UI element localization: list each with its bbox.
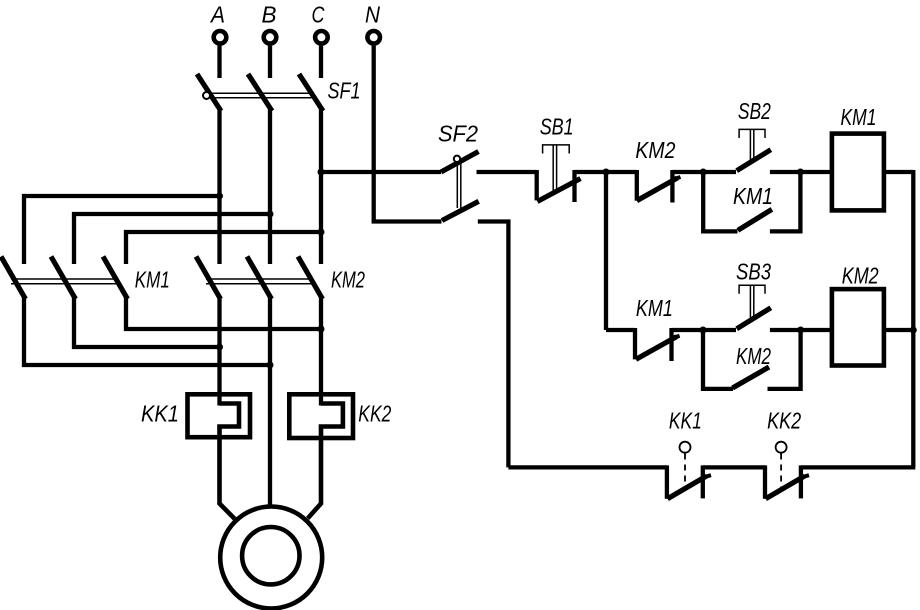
node SB2 left junction [700,169,707,176]
wire B to KM1 pole2 feed [74,214,270,264]
contact KM2 NC blade [637,178,678,201]
pushbutton SB1 right lead [572,170,576,202]
right rail [911,170,915,467]
pushbutton SB2 blade [737,150,771,171]
wire phase A SF1 to KM2 block [217,109,221,264]
contact KM1 NC tick [672,336,680,339]
SF2 pivot circle [454,156,460,162]
wire KM1 pole2 output crossover to A [74,296,220,347]
svg-text:KM2: KM2 [736,343,771,369]
svg-text:KK1: KK1 [669,408,702,434]
contact KM1 aux branch [703,172,737,231]
svg-text:SB1: SB1 [540,114,574,140]
contact KM2 NC left lead [635,170,639,201]
contact KK2 right lead [799,465,803,498]
contactor KM2 pole3 blade [298,257,323,300]
overload relay KK2 heater box [289,394,353,438]
node right rail junction [910,327,917,334]
switch SF2 pole1 blade [441,152,479,173]
wire SB3 to KM2 coil [770,328,832,332]
node C feed tap [318,229,325,236]
wire A to KM1 pole1 feed [24,196,220,264]
bottom rail middle [703,465,765,469]
SB2 actuator [739,129,765,138]
node crossover A junction [216,344,223,351]
node rung1 branch [603,169,610,176]
coil KM1 box [832,134,884,211]
contact KK1 tick [702,475,712,478]
wire N terminal down [374,46,442,222]
contact KM2 aux blade [733,367,770,388]
SF1 coupling bar [207,92,312,94]
KK2 circle [776,442,787,453]
KM1 coupling bar [11,278,117,280]
contact KM2 NC right lead [670,170,674,203]
SB1 actuator [543,145,570,154]
switch SF1 pole C blade [299,74,323,111]
contact KM2 aux right lead [768,330,801,389]
svg-text:SF1: SF1 [328,77,361,103]
KK2 dashed link [780,454,782,490]
bottom rail left [508,465,667,469]
coil KM2 box [832,289,884,365]
pushbutton SB1 blade [537,179,580,202]
contactor KM1 pole2 blade [51,257,76,300]
terminal N [367,31,380,44]
contact KK1 left lead [665,465,669,498]
contact KK1 right lead [701,465,705,498]
node crossover B junction [267,362,274,369]
wire A terminal to SF1 [217,46,221,78]
wire KM2 coil to right rail [884,328,914,332]
wire C output to KK2 [319,296,323,406]
SF2 coupling [456,161,458,208]
contact KM1 NC blade [636,337,677,360]
contact KK2 left lead [763,465,767,498]
terminal B [264,31,277,44]
svg-text:SB2: SB2 [738,98,771,124]
wire A output to KK1 [217,296,221,406]
svg-text:C: C [312,1,325,27]
contactor KM1 pole1 blade [1,257,26,300]
node crossover C junction [318,326,325,333]
wire SF2 pole1 to SB1 [477,170,537,174]
KK2 heater element path [308,404,343,519]
contact KM1 aux right lead [770,172,801,231]
svg-text:KM2: KM2 [842,263,879,289]
svg-text:B: B [262,1,277,27]
terminal A [214,31,227,44]
svg-text:KM1: KM1 [733,183,773,209]
wire C tap to SF2 [321,170,441,174]
node B feed tap [267,211,274,218]
KK1 dashed link [684,454,686,490]
svg-text:KM1: KM1 [841,104,877,130]
contact KM2 NC tick [673,177,681,180]
switch SF1 pole B blade [248,74,272,111]
wire KM2 NC to SB2 [672,170,736,174]
motor outer circle [220,507,322,609]
wire phase B SF1 to KM2 block [268,109,272,264]
SF1 pivot circle [203,92,210,99]
switch SF2 pole2 blade [442,201,479,220]
switch SF1 pole A blade [197,74,221,111]
svg-text:KM1: KM1 [636,295,673,321]
wire KM1 pole1 output crossover to B [24,296,270,365]
contactor KM1 pole3 blade [103,257,128,300]
wire SB1 to KM2 NC [575,170,637,174]
svg-text:KK1: KK1 [141,401,179,427]
node SB3 right junction [797,327,804,334]
node SB3 left junction [700,327,707,334]
wire rung2 drop [604,172,608,330]
svg-text:N: N [365,1,380,27]
svg-text:KK2: KK2 [358,401,391,427]
contact KM1 NC left lead [633,328,637,359]
svg-text:KM2: KM2 [331,266,365,292]
wire SB2 to KM1 coil [770,170,832,174]
wire KM1 pole3 output to C [126,296,321,329]
contact KM2 aux branch [703,330,733,389]
pushbutton SB3 blade [737,308,771,329]
contact KM1 NC right lead [669,328,673,361]
svg-text:KM2: KM2 [635,137,675,163]
motor inner circle [242,527,299,584]
overload relay KK1 heater box [188,394,251,437]
wire B terminal to SF1 [268,46,272,78]
KK1 circle [680,442,691,453]
svg-text:SB3: SB3 [736,259,771,285]
wire SF2 pole2 to bottom rail [478,222,509,468]
wire KM1 NC to SB3 [672,328,737,332]
pushbutton SB1 left lead [535,170,539,200]
contact KK1 blade [668,476,707,499]
contact KM1 aux blade [738,209,772,230]
svg-text:A: A [209,1,225,27]
svg-text:KM1: KM1 [135,266,170,292]
node C control tap [318,169,325,176]
wire KM1 coil to right rail [884,170,914,174]
bottom rail right [801,465,915,469]
wire phase C SF1 to KM2 block [319,109,323,264]
wire B output to motor [268,296,272,508]
svg-text:SF2: SF2 [438,121,478,147]
wire C terminal to SF1 [319,46,323,78]
SB3 actuator [739,285,765,294]
wire rung2 to KM1 NC [606,328,635,332]
KM2 coupling bar [206,278,313,280]
wire C to KM1 pole3 feed [126,232,321,264]
svg-text:KK2: KK2 [767,408,801,434]
contact KK2 blade [766,476,805,499]
node A feed tap [216,193,223,200]
contact KK2 tick [800,475,809,478]
KK1 heater element path [220,404,240,520]
contactor KM2 pole1 blade [196,257,221,300]
contactor KM2 pole2 blade [247,257,272,300]
terminal C [315,31,328,44]
node SB2 right junction [797,169,804,176]
